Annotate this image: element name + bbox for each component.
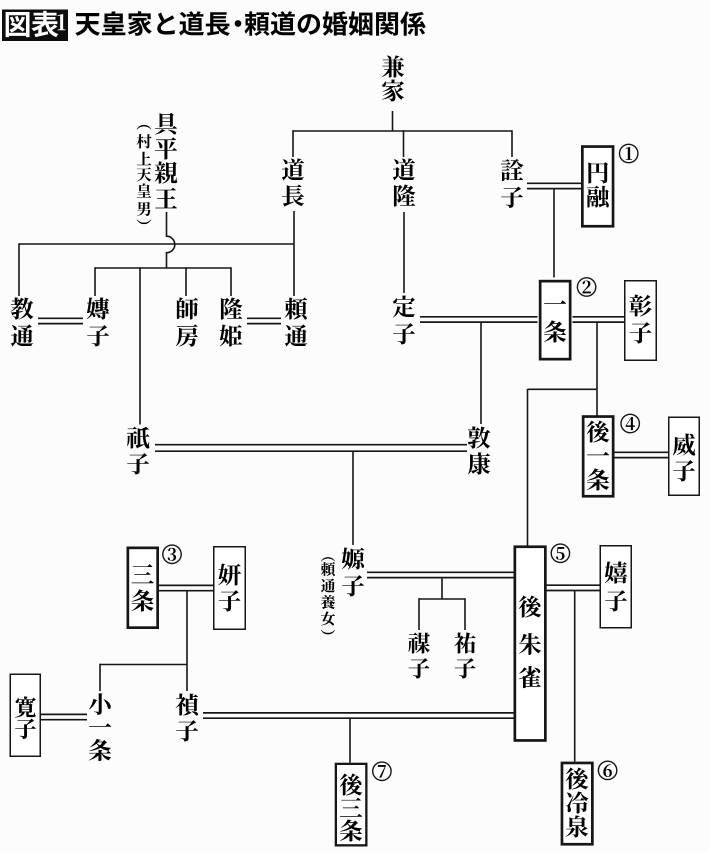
祐子 bbox=[454, 632, 476, 653]
威子 box bbox=[669, 417, 700, 495]
wire down to 後冷泉 bbox=[574, 591, 576, 762]
頼通 bbox=[285, 297, 308, 319]
wire to 師房 bbox=[185, 267, 187, 296]
定子 bbox=[393, 295, 415, 317]
marriage 定子=一条 bbox=[420, 317, 538, 322]
嫥子 bbox=[87, 297, 109, 319]
wire to 小一条 down bbox=[99, 664, 101, 691]
嫄子 bbox=[342, 547, 365, 569]
label ④ bbox=[621, 414, 639, 432]
道長 bbox=[282, 158, 304, 180]
marriage 一条=彰子 bbox=[573, 317, 625, 322]
marriage 寛子=小一条 bbox=[41, 714, 87, 719]
wire 道長 down to 頼通 bbox=[293, 211, 295, 296]
wire 具平親王 down with bridge bbox=[167, 212, 175, 268]
禎子 bbox=[176, 694, 198, 716]
marriage 教通=嫥子 bbox=[38, 318, 83, 323]
label ③ bbox=[163, 545, 181, 563]
wire 詮子 child down to 一条 bbox=[553, 189, 555, 278]
wire 道隆 down to 定子 bbox=[403, 212, 405, 293]
wire to 隆姫 bbox=[230, 267, 232, 296]
emperor box 一条 U2 bbox=[540, 281, 570, 359]
wire down to 嫄子 bbox=[352, 451, 354, 545]
wire branch to 後朱雀 bbox=[528, 388, 598, 390]
emperor box 三条 U3 bbox=[128, 548, 158, 628]
wire to 後三条 bbox=[349, 718, 351, 762]
wire to 道長 bbox=[292, 130, 294, 157]
wire to 祐子 bbox=[464, 598, 466, 630]
wire horiz 具平親王 children bbox=[95, 267, 231, 269]
marriage 三条=妍子 bbox=[159, 585, 213, 590]
emperor box 後三条 U7 bbox=[336, 764, 367, 846]
emperor box 円融 U1 bbox=[582, 147, 613, 227]
marriage 祇子=敦康 bbox=[155, 445, 467, 452]
具平親王 note 村上天皇男 bbox=[137, 125, 152, 130]
wire to 禖子 bbox=[418, 598, 420, 630]
隆姫 bbox=[221, 297, 242, 319]
marriage 後朱雀=嬉子 bbox=[547, 585, 600, 590]
wire to 嫥子 bbox=[94, 267, 96, 296]
marriage 禎子=後朱雀 bbox=[203, 713, 514, 718]
wire horiz to 小一条 bbox=[100, 664, 187, 666]
wire 一条 children down bbox=[596, 322, 598, 416]
嫄子 note 頼通養女 bbox=[321, 557, 335, 561]
emperor box 後一条 U4 bbox=[583, 417, 613, 497]
wire to 詮子 bbox=[511, 130, 513, 157]
祇子 bbox=[127, 427, 149, 449]
wire 兼家 down bbox=[392, 111, 394, 131]
emperor box 後朱雀 U5 bbox=[515, 547, 546, 741]
敦康 bbox=[468, 426, 491, 448]
emperor box 後冷泉 U6 bbox=[562, 763, 592, 844]
妍子 box bbox=[214, 547, 246, 630]
label ② bbox=[577, 278, 595, 296]
label ⑥ bbox=[598, 761, 616, 779]
教通 bbox=[11, 298, 34, 320]
title text bbox=[75, 13, 100, 36]
marriage 嫄子=後朱雀 bbox=[367, 572, 514, 577]
寛子 box bbox=[10, 674, 40, 756]
wire 嫄子 children bbox=[441, 579, 443, 599]
wire horiz gen1 bbox=[293, 130, 512, 132]
wire to 道隆 bbox=[403, 130, 405, 157]
小一条 bbox=[89, 693, 111, 715]
wire 敦康 parent bbox=[480, 322, 482, 424]
道隆 bbox=[393, 158, 415, 180]
嬉子 box bbox=[600, 546, 631, 628]
label ⑤ bbox=[551, 544, 569, 562]
marriage 詮子=円融 bbox=[527, 183, 582, 188]
師房 bbox=[177, 297, 198, 319]
marriage 隆姫=頼通 bbox=[247, 318, 281, 323]
wire horiz 道長 children bbox=[19, 243, 294, 245]
label ① bbox=[620, 144, 638, 162]
title block 図表1 bbox=[2, 10, 68, 42]
彰子 box bbox=[625, 281, 657, 361]
marriage 後一条=威子 bbox=[615, 452, 669, 457]
兼家 bbox=[382, 55, 404, 77]
wire to 祇子 (long) bbox=[139, 267, 141, 424]
wire to 教通 bbox=[18, 243, 20, 296]
詮子 bbox=[501, 159, 524, 181]
label ⑦ bbox=[373, 762, 391, 780]
wire 三条 child down bbox=[186, 591, 188, 691]
具平親王 bbox=[155, 113, 177, 135]
禖子 bbox=[408, 633, 430, 654]
